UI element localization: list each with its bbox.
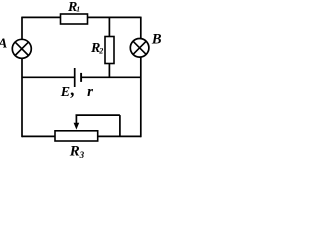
svg-text:E: E [60,85,70,100]
wiper arrow of R3 [75,115,77,124]
wire bottom right [98,135,141,137]
wire R2 branch upper [108,17,110,36]
wire middle left to battery [22,76,75,78]
svg-text:R: R [69,144,80,160]
wire lamp B vertical upper [140,17,142,39]
svg-text:2: 2 [98,47,103,56]
wire wiper return vertical [119,115,121,136]
resistor R1 [61,14,88,24]
wire lamp A vertical upper [21,17,23,40]
wire R2 branch lower [108,64,110,78]
wire wiper horizontal [76,114,120,116]
battery E,r short plate [80,73,82,82]
svg-text:1: 1 [76,4,80,13]
wire lamp B vertical lower [140,57,142,137]
svg-text:,: , [70,79,76,99]
wire top from lamp A to lamp B [22,16,141,18]
svg-text:A: A [0,37,7,52]
svg-text:B: B [151,31,161,47]
rheostat R3 [55,131,98,141]
wire lamp A vertical lower [21,58,23,137]
resistor R2 [105,37,114,64]
svg-text:r: r [87,84,93,100]
lamp B [130,39,149,58]
svg-text:3: 3 [79,150,85,160]
battery E,r long plate [74,68,76,87]
wire bottom left [22,135,55,137]
wire middle battery to lamp B [81,76,141,78]
lamp A [12,39,31,58]
